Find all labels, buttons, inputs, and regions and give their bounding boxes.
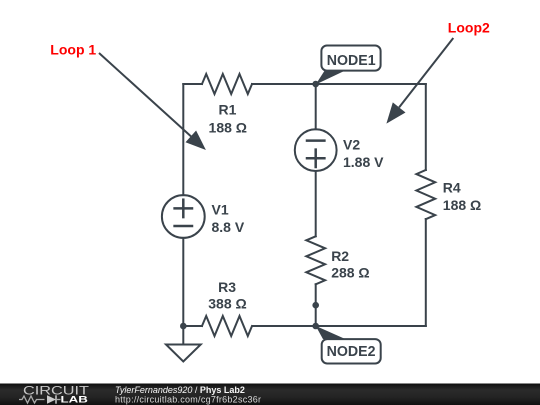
arrow Loop2 bbox=[386, 38, 453, 124]
svg-text:388 Ω: 388 Ω bbox=[208, 295, 246, 311]
logo diode bbox=[47, 395, 56, 403]
node junction dot above bottom wire bbox=[312, 302, 319, 309]
svg-text:NODE1: NODE1 bbox=[327, 53, 376, 69]
svg-text:V2: V2 bbox=[343, 137, 360, 153]
wire left vertical upper bbox=[182, 84, 184, 195]
ground stem bbox=[182, 326, 184, 345]
logo resistor squiggle bbox=[19, 396, 45, 403]
svg-text:V1: V1 bbox=[212, 201, 229, 217]
svg-text:1.88 V: 1.88 V bbox=[343, 154, 384, 170]
node NODE1 callout bbox=[316, 46, 381, 85]
svg-text:TylerFernandes920 / Phys Lab2: TylerFernandes920 / Phys Lab2 bbox=[115, 385, 245, 395]
node NODE1 junction dot bbox=[312, 81, 319, 88]
voltage source V2 bbox=[295, 129, 337, 171]
wire middle below R2 bbox=[315, 284, 317, 326]
wire top-right horizontal bbox=[252, 83, 426, 85]
wire middle vertical upper bbox=[315, 84, 317, 129]
svg-text:R4: R4 bbox=[443, 179, 461, 195]
label V2 bbox=[343, 137, 384, 171]
svg-text:188 Ω: 188 Ω bbox=[443, 197, 481, 213]
svg-text:188 Ω: 188 Ω bbox=[209, 119, 247, 135]
resistor R1 bbox=[202, 74, 252, 94]
voltage source V1 bbox=[162, 195, 205, 238]
svg-text:Loop2: Loop2 bbox=[448, 19, 490, 35]
node NODE2 junction dot bbox=[312, 323, 319, 330]
svg-text:LAB: LAB bbox=[61, 394, 89, 404]
wire bottom-right horizontal bbox=[252, 325, 425, 327]
label R1 bbox=[209, 102, 247, 136]
label V1 bbox=[212, 201, 245, 235]
svg-text:Loop 1: Loop 1 bbox=[50, 42, 96, 58]
wire middle between V2 and R2 bbox=[315, 171, 317, 236]
label R4 bbox=[443, 179, 481, 213]
wire top-left horizontal bbox=[183, 83, 202, 85]
label R2 bbox=[331, 248, 369, 281]
wire right vertical lower bbox=[425, 219, 427, 326]
label R3 bbox=[208, 279, 246, 311]
svg-text:R1: R1 bbox=[219, 102, 237, 118]
arrow Loop 1 bbox=[99, 53, 206, 150]
node ground junction dot bbox=[180, 323, 187, 330]
resistor R3 bbox=[202, 316, 252, 336]
wire right vertical upper bbox=[425, 84, 427, 170]
svg-text:R2: R2 bbox=[331, 248, 349, 264]
svg-text:http://circuitlab.com/cg7fr6b2: http://circuitlab.com/cg7fr6b2sc36r bbox=[115, 394, 261, 404]
resistor R4 bbox=[416, 170, 435, 219]
wire bottom-left horizontal bbox=[183, 325, 202, 327]
svg-text:8.8 V: 8.8 V bbox=[212, 219, 245, 235]
svg-text:NODE2: NODE2 bbox=[327, 344, 376, 360]
svg-text:288 Ω: 288 Ω bbox=[331, 265, 369, 281]
footer bar bbox=[0, 384, 540, 405]
wire left vertical lower bbox=[182, 238, 184, 326]
ground bbox=[166, 345, 201, 362]
resistor R2 bbox=[306, 236, 325, 284]
node NODE2 callout bbox=[316, 326, 381, 364]
svg-text:R3: R3 bbox=[218, 279, 236, 295]
